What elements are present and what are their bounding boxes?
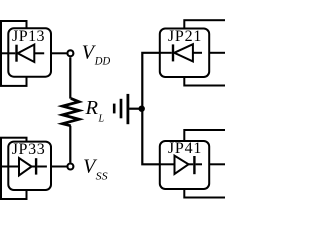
- svg-text:R: R: [84, 97, 98, 119]
- svg-text:SS: SS: [96, 170, 109, 182]
- svg-text:JP33: JP33: [12, 141, 45, 158]
- svg-text:L: L: [98, 113, 105, 124]
- svg-text:JP13: JP13: [12, 28, 45, 45]
- svg-text:DD: DD: [94, 55, 111, 68]
- svg-text:JP41: JP41: [168, 140, 202, 157]
- svg-text:JP21: JP21: [168, 28, 202, 45]
